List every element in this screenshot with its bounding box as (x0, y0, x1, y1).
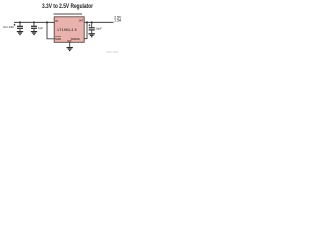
wire SENSE tie to output (84, 22, 87, 38)
rule above regulator box (54, 13, 83, 15)
node junction output cap C3 (91, 21, 93, 23)
wire input VIN to IN pin (14, 21, 54, 23)
pin label GND (67, 40, 71, 43)
node junction SHDN (46, 21, 48, 23)
part label LT1963-2.5 (58, 28, 77, 32)
svg-text:1963 TA01: 1963 TA01 (106, 50, 119, 54)
capacitor C2 1uF input (31, 22, 43, 31)
pin label OUT (79, 18, 84, 22)
svg-text:10µF: 10µF (95, 26, 102, 30)
ground for C1 (17, 32, 23, 35)
svg-text:VIN = 3.3V: VIN = 3.3V (3, 25, 14, 29)
svg-text:SENSE: SENSE (71, 37, 80, 41)
svg-text:IN: IN (55, 19, 58, 23)
node junction SENSE output (86, 21, 88, 23)
pin label IN (55, 19, 58, 23)
ground for C2 (31, 32, 37, 35)
svg-text:3.3V to 2.5V Regulator: 3.3V to 2.5V Regulator (42, 3, 93, 10)
svg-text:OUT: OUT (79, 18, 84, 22)
node junction input cap C2 (33, 21, 35, 23)
wire OUT pin to output (84, 21, 113, 23)
capacitor C1 polarized 10uF input (14, 22, 23, 31)
wire SHDN tie to input (47, 22, 54, 38)
figure tag 1963 TA01 (106, 50, 119, 54)
svg-text:1.5A: 1.5A (114, 19, 122, 23)
input label VIN = 3.3V (3, 25, 14, 29)
pin label SHDN with overbar (55, 37, 61, 41)
capacitor C3 polarized 10uF output (89, 22, 103, 33)
wire GND pin down (69, 42, 71, 47)
svg-text:LT1963-2.5: LT1963-2.5 (58, 28, 77, 32)
node junction input cap C1 (19, 21, 21, 23)
ground for GND pin (67, 48, 73, 51)
output label 1.5A (114, 19, 122, 23)
regulator U1 LT1963-2.5 box (54, 17, 84, 43)
ground for C3 (89, 34, 95, 37)
svg-text:SHDN: SHDN (55, 37, 61, 41)
pin label SENSE (71, 37, 80, 41)
svg-text:1µF: 1µF (38, 26, 43, 30)
title (42, 3, 93, 10)
output label 2.5V (114, 16, 122, 20)
